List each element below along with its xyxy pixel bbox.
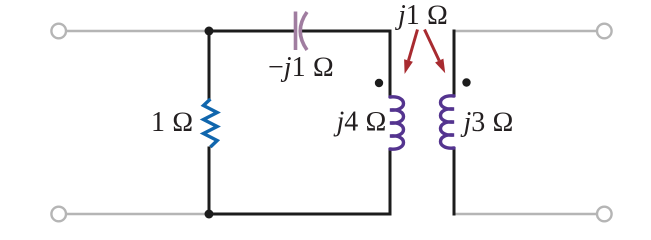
svg-text:j1 Ω: j1 Ω <box>395 0 448 31</box>
svg-text:j4 Ω: j4 Ω <box>334 107 387 138</box>
svg-text:j3 Ω: j3 Ω <box>461 107 514 138</box>
svg-text:−j1 Ω: −j1 Ω <box>268 52 334 83</box>
svg-text:1 Ω: 1 Ω <box>151 107 194 138</box>
